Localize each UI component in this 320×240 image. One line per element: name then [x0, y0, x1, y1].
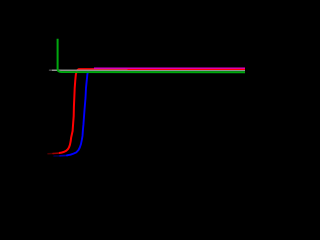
- blue curve dark tail: [54, 155, 61, 157]
- green step curve: [58, 39, 245, 73]
- blue I-V curve: [67, 69, 94, 155]
- red I-V curve: [59, 69, 245, 153]
- gray saturation line: [52, 69, 245, 71]
- blue curve mid tail: [60, 154, 68, 156]
- red curve mid tail: [53, 152, 60, 154]
- magenta plateau (blue under red): [94, 67, 245, 69]
- red curve dark tail: [48, 153, 54, 155]
- gray line lead-in: [50, 69, 53, 71]
